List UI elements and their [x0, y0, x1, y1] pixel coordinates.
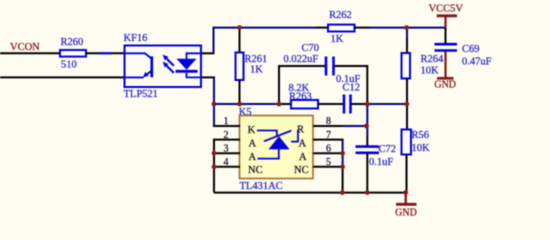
svg-text:A: A	[249, 152, 257, 163]
svg-text:0.022uF: 0.022uF	[284, 54, 319, 65]
resistor R262	[328, 10, 355, 45]
resistor R264	[402, 53, 445, 79]
wire R260 to optocoupler pin	[86, 52, 125, 54]
wire optocoupler top-right pin	[201, 52, 215, 54]
ground below C69	[434, 52, 456, 91]
svg-text:VCC5V: VCC5V	[429, 4, 464, 15]
wire C70 branch right	[335, 66, 368, 104]
svg-text:10K: 10K	[412, 143, 431, 154]
wire R264 to rail104	[406, 79, 408, 130]
svg-text:C12: C12	[343, 82, 361, 93]
svg-text:8: 8	[326, 116, 331, 127]
svg-text:KF16: KF16	[124, 33, 148, 44]
svg-text:GND: GND	[395, 208, 417, 219]
svg-text:C69: C69	[462, 44, 480, 55]
svg-text:R262: R262	[329, 10, 352, 21]
svg-text:K: K	[248, 125, 256, 136]
wire R262 right pin	[355, 27, 370, 29]
svg-text:NC: NC	[294, 165, 309, 176]
wire to R264 column (navy net)	[367, 103, 407, 105]
TL431 symbol inside body	[257, 130, 298, 159]
svg-text:6: 6	[326, 143, 331, 154]
wire mid rail segment (navy net)	[214, 103, 279, 105]
wire R264 top pin	[406, 38, 408, 53]
svg-text:5: 5	[326, 157, 331, 168]
wire down to node rail (navy net)	[213, 77, 215, 104]
svg-text:1: 1	[224, 116, 229, 127]
wire top rail right segment (navy net)	[369, 27, 446, 29]
resistor R263	[289, 83, 319, 109]
ground bottom right	[395, 193, 417, 219]
svg-text:1K: 1K	[331, 34, 344, 45]
capacitor C12	[336, 74, 360, 114]
wire R262 left pin	[316, 27, 329, 29]
wire R264 column from rail (navy upper)	[406, 28, 408, 38]
svg-text:7: 7	[326, 130, 331, 141]
wire lower left to optocoupler	[0, 76, 125, 78]
svg-text:GND: GND	[434, 80, 456, 91]
svg-text:3: 3	[224, 143, 229, 154]
wire R263 to C12	[318, 103, 344, 105]
capacitor C69	[435, 44, 492, 68]
wire R263 left pin	[279, 103, 292, 105]
wire optocoupler bottom-right pin	[201, 76, 215, 78]
wire top rail left segment (navy net)	[213, 27, 317, 29]
svg-text:A: A	[299, 152, 307, 163]
pin 1 wire	[213, 104, 256, 136]
pin 6 wire	[299, 143, 343, 163]
wire up to top rail (navy net)	[213, 28, 215, 54]
optocoupler KF16 TLP521	[124, 33, 202, 100]
svg-text:A: A	[249, 139, 257, 150]
pin 7 wire	[299, 130, 344, 193]
svg-text:R264: R264	[421, 54, 445, 65]
wire bottom rail	[214, 192, 406, 194]
svg-text:R261: R261	[245, 54, 268, 65]
wire C12 right pin	[352, 103, 368, 105]
svg-text:10K: 10K	[421, 66, 440, 77]
svg-text:1K: 1K	[250, 65, 263, 76]
svg-text:C72: C72	[379, 144, 397, 155]
resistor R56	[402, 130, 431, 155]
svg-text:R56: R56	[412, 130, 430, 141]
wire VCON to R260	[0, 52, 60, 54]
pin 2 wire	[214, 130, 257, 193]
svg-text:510: 510	[61, 59, 77, 70]
svg-text:VCON: VCON	[10, 42, 40, 53]
pin 8 wire	[297, 116, 367, 135]
svg-text:TL431AC: TL431AC	[240, 181, 283, 192]
transistor inside optocoupler	[125, 53, 152, 77]
svg-text:R260: R260	[61, 37, 84, 48]
svg-text:NC: NC	[248, 165, 263, 176]
light arrows	[163, 55, 174, 73]
resistor R261	[236, 28, 268, 104]
wire C72 column upper (navy)	[366, 104, 368, 136]
wire C72 to bottom rail	[366, 154, 368, 193]
part K5 TL431AC body	[239, 107, 313, 192]
wire C72 top pin	[366, 136, 368, 146]
resistor R260	[60, 37, 86, 71]
svg-text:2: 2	[224, 130, 229, 141]
capacitor C70	[284, 43, 334, 76]
svg-text:4: 4	[224, 157, 229, 168]
pin 5 wire	[294, 157, 343, 176]
svg-text:0.47uF: 0.47uF	[462, 56, 492, 67]
svg-text:R: R	[297, 125, 304, 136]
pin 4 wire	[214, 157, 263, 176]
svg-text:A: A	[299, 139, 307, 150]
capacitor C72	[356, 144, 397, 168]
svg-text:TLP521: TLP521	[124, 89, 158, 100]
wire R56 to bottom rail	[406, 155, 408, 193]
power VCC5V	[429, 4, 464, 29]
svg-text:0.1uF: 0.1uF	[369, 157, 393, 168]
pin 3 wire	[214, 143, 257, 163]
LED inside optocoupler	[176, 53, 202, 77]
wire C70 branch left	[279, 66, 325, 104]
wire VCC rail to C69	[445, 28, 447, 44]
svg-text:C70: C70	[302, 43, 320, 54]
